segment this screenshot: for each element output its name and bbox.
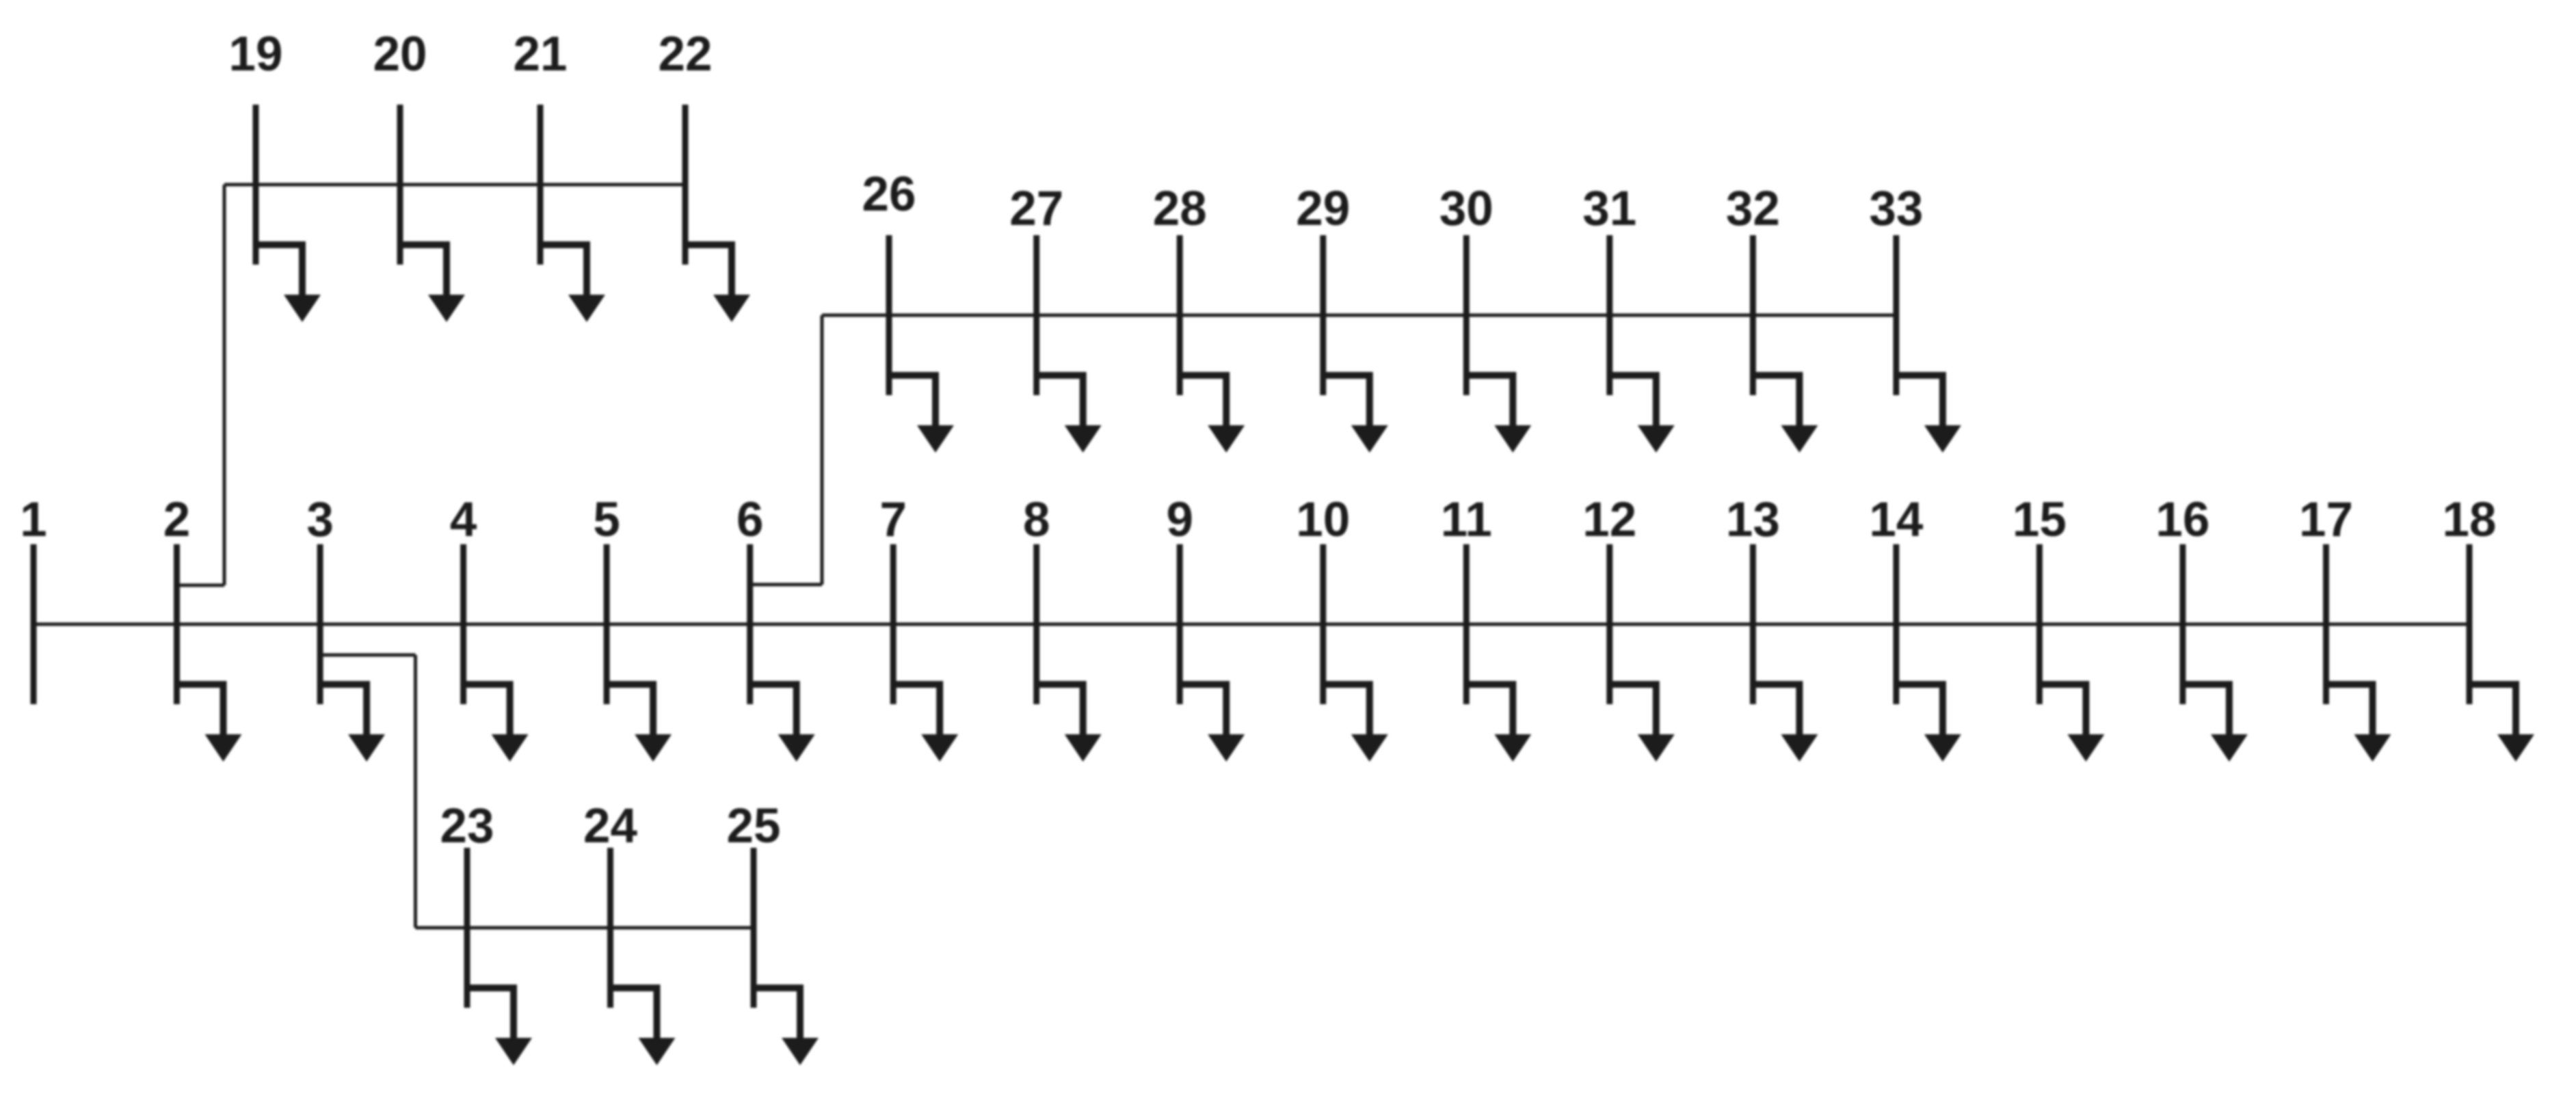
svg-text:30: 30: [1439, 182, 1493, 236]
svg-text:7: 7: [879, 493, 907, 547]
svg-text:32: 32: [1726, 182, 1780, 236]
svg-text:31: 31: [1582, 182, 1636, 236]
svg-text:21: 21: [514, 27, 568, 81]
svg-text:24: 24: [583, 799, 637, 853]
svg-text:3: 3: [306, 493, 334, 547]
svg-text:1: 1: [20, 493, 47, 547]
svg-text:22: 22: [659, 27, 713, 81]
svg-text:17: 17: [2299, 493, 2353, 547]
svg-text:27: 27: [1009, 182, 1063, 236]
svg-text:20: 20: [373, 27, 427, 81]
svg-text:9: 9: [1166, 493, 1193, 547]
svg-text:29: 29: [1296, 182, 1350, 236]
svg-text:13: 13: [1726, 493, 1780, 547]
svg-text:25: 25: [727, 799, 781, 853]
svg-text:23: 23: [440, 799, 494, 853]
svg-text:4: 4: [450, 493, 477, 547]
svg-text:6: 6: [736, 493, 764, 547]
svg-text:19: 19: [229, 27, 283, 81]
svg-text:10: 10: [1296, 493, 1350, 547]
svg-text:18: 18: [2443, 493, 2497, 547]
svg-text:16: 16: [2155, 493, 2209, 547]
svg-text:33: 33: [1869, 182, 1923, 236]
svg-text:26: 26: [862, 168, 916, 222]
svg-text:28: 28: [1153, 182, 1207, 236]
svg-text:15: 15: [2013, 493, 2067, 547]
svg-text:14: 14: [1869, 493, 1923, 547]
svg-text:5: 5: [593, 493, 620, 547]
svg-text:8: 8: [1023, 493, 1050, 547]
svg-text:11: 11: [1441, 493, 1492, 547]
svg-text:2: 2: [163, 493, 191, 547]
svg-text:12: 12: [1582, 493, 1636, 547]
